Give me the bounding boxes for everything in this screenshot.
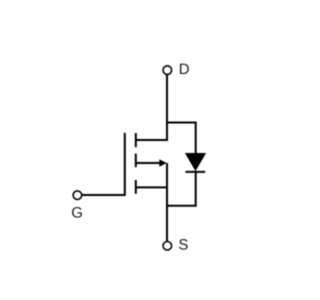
svg-text:G: G (71, 205, 83, 222)
svg-text:D: D (179, 61, 190, 78)
svg-text:S: S (178, 237, 188, 254)
